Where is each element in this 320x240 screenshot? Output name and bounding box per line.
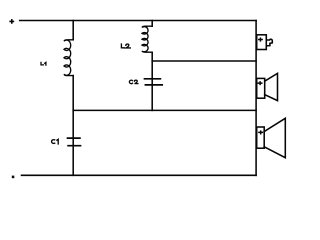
terminal + (input positive) <box>10 20 13 23</box>
speaker woofer (box) <box>257 127 265 148</box>
terminal - (input negative) <box>12 176 15 179</box>
wire top rail <box>20 20 256 22</box>
wire mid tap (midrange feed) <box>152 60 256 62</box>
wire left branch top <box>72 21 74 40</box>
wire left branch lower <box>72 76 74 176</box>
wire mid horizontal (woofer feed) <box>73 109 256 111</box>
label C2 <box>129 80 138 84</box>
midrange cone <box>265 73 278 100</box>
speaker tweeter (box) <box>257 35 267 50</box>
speaker midrange (box) <box>257 78 265 98</box>
woofer cone <box>264 118 285 157</box>
wire L2 branch lower <box>151 52 153 110</box>
tweeter polarity plus <box>259 38 262 41</box>
wire L2 branch top <box>151 21 153 27</box>
inductor L1 <box>64 40 73 76</box>
tweeter dome <box>266 39 272 46</box>
midrange polarity dot <box>258 82 262 85</box>
label L2 <box>121 44 130 48</box>
capacitor C1 <box>68 138 81 146</box>
label L1 <box>41 62 46 65</box>
wire bottom rail <box>22 174 257 176</box>
label C1 <box>52 139 59 144</box>
capacitor C2 <box>145 79 163 85</box>
wire right bus <box>255 21 257 176</box>
inductor L2 <box>142 26 152 52</box>
woofer polarity dot <box>259 131 263 134</box>
